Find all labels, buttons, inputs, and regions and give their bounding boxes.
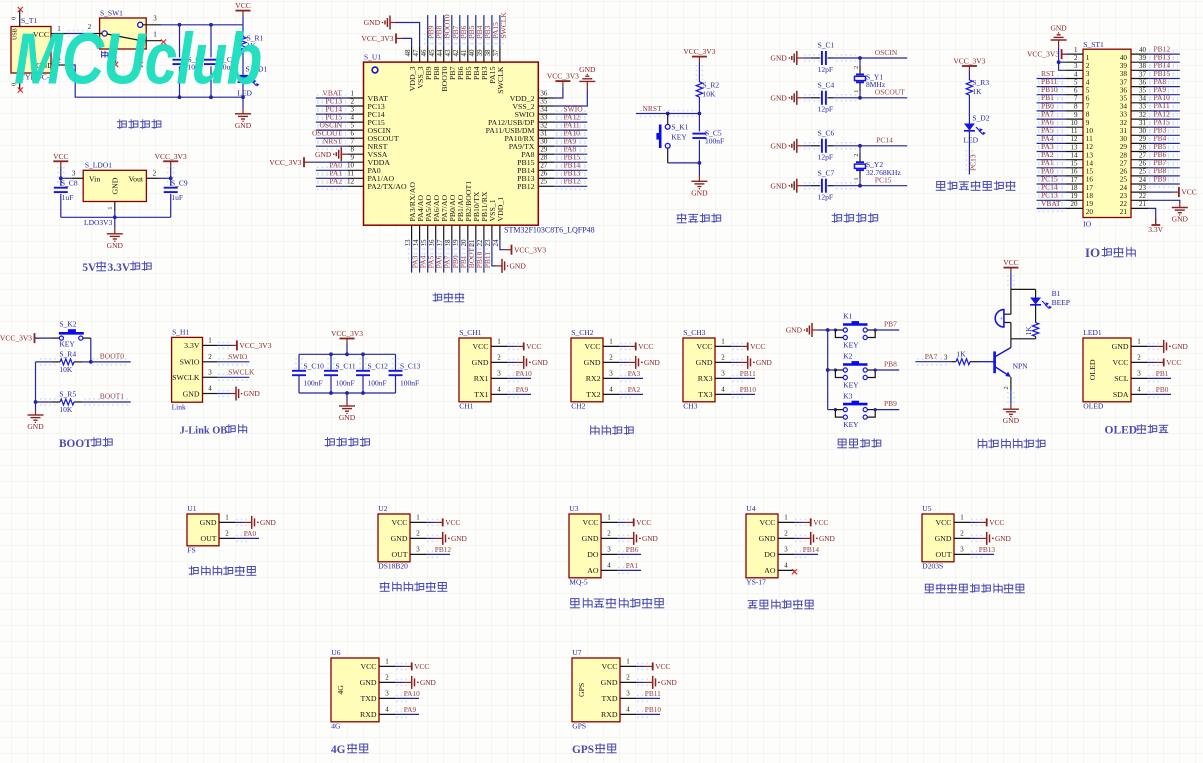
svg-text:27: 27 <box>540 162 548 170</box>
LED1 pin 2 to VCC <box>1112 353 1181 367</box>
title OLED显示屏 <box>1105 424 1169 436</box>
svg-text:2: 2 <box>351 97 355 105</box>
svg-text:8MHz: 8MHz <box>866 80 886 89</box>
svg-text:17: 17 <box>1071 176 1079 184</box>
U1 pin 38 PA15 (top) <box>484 15 500 83</box>
svg-text:39: 39 <box>1139 54 1147 62</box>
wire BOOT pulldown rail <box>34 362 38 404</box>
LED S_LD1 <box>237 65 267 98</box>
ST1 pin 18 node PC14 (left) <box>1037 183 1094 200</box>
svg-text:VCC_3V3: VCC_3V3 <box>155 152 187 161</box>
svg-text:CH1: CH1 <box>459 401 473 410</box>
svg-text:10K: 10K <box>59 365 73 374</box>
power flag VCC_3V3 of reset circuit <box>683 47 715 82</box>
svg-text:Vout: Vout <box>129 175 144 184</box>
title 4G模块 <box>331 743 369 756</box>
U1 pin 13 PA3/RX/AO (bottom) <box>404 182 420 273</box>
U1 pin 20 PB2/BOOT1 (bottom) <box>460 181 476 273</box>
svg-text:45: 45 <box>428 49 436 57</box>
svg-text:VCC: VCC <box>638 342 653 351</box>
ST1 pin 17 node PC15 (left) <box>1037 174 1094 191</box>
svg-text:STM32F103C8T6_LQFP48: STM32F103C8T6_LQFP48 <box>504 225 595 234</box>
svg-text:VCC_3V3: VCC_3V3 <box>239 341 271 350</box>
svg-text:1: 1 <box>351 89 355 97</box>
svg-text:PA1: PA1 <box>626 561 639 570</box>
svg-text:S_C10: S_C10 <box>304 361 325 370</box>
svg-text:GND: GND <box>1003 416 1020 425</box>
svg-text:1uF: 1uF <box>62 193 74 202</box>
svg-text:GND: GND <box>244 389 261 398</box>
svg-text:Link: Link <box>172 403 186 412</box>
connector S_ST1 body <box>1083 40 1131 229</box>
svg-text:35: 35 <box>540 97 548 105</box>
svg-text:1: 1 <box>784 513 788 521</box>
title 温度检测模块 <box>380 582 448 592</box>
ground GND at ST1 pin 22 <box>1172 203 1189 224</box>
ST1 pin 13 node PA3 (left) <box>1037 142 1094 159</box>
svg-text:GND: GND <box>819 534 835 543</box>
svg-text:4: 4 <box>721 385 725 393</box>
title 人体热释电感应模块 <box>925 584 1025 593</box>
svg-text:VCC: VCC <box>636 518 651 527</box>
ST1 pin 25 node PB8 (right) <box>1120 166 1180 184</box>
svg-text:2: 2 <box>153 170 157 178</box>
svg-text:PA2/TX/AO: PA2/TX/AO <box>368 182 408 191</box>
svg-text:RXD: RXD <box>601 710 618 719</box>
svg-text:PB8: PB8 <box>884 359 897 368</box>
U6 pin 4 node PA9 <box>360 705 419 719</box>
svg-text:VCC: VCC <box>935 518 951 527</box>
push button K3 node PB9 <box>828 391 900 429</box>
resistor S_R1 1K <box>240 25 264 75</box>
capacitor S_C1 12pF with ground, node OSCIN <box>771 41 908 74</box>
U1 pin 5 OSCIN (left) <box>316 121 391 135</box>
svg-text:34: 34 <box>540 106 548 114</box>
svg-text:18: 18 <box>1071 184 1079 192</box>
svg-text:KEY: KEY <box>671 133 687 142</box>
svg-text:2: 2 <box>960 529 964 537</box>
svg-text:100nF: 100nF <box>705 136 724 145</box>
svg-text:1: 1 <box>208 337 212 345</box>
svg-text:42: 42 <box>452 49 460 57</box>
svg-text:7: 7 <box>1074 95 1078 103</box>
svg-text:11: 11 <box>1071 127 1078 135</box>
U1 pin 2 node PA0 <box>200 529 259 543</box>
pin 0 top of S_T1 with no-ERC cross <box>11 7 23 27</box>
U7 pin 2 to GND <box>601 673 677 689</box>
title 火焰检测模块 <box>748 600 814 609</box>
svg-text:32: 32 <box>1139 111 1147 119</box>
capacitor S_C10 100nF <box>292 354 324 393</box>
svg-text:KEY: KEY <box>843 380 859 389</box>
title BOOT电路 <box>59 437 112 450</box>
U1 pin 27 PB14 (right) <box>517 161 587 176</box>
power flag VCC of alarm circuit <box>1003 258 1018 289</box>
svg-text:4: 4 <box>385 705 389 713</box>
svg-text:PB14: PB14 <box>803 545 820 554</box>
U1 pin 23 VSS_1 (bottom) <box>484 199 526 273</box>
svg-text:3: 3 <box>208 369 212 377</box>
svg-text:10: 10 <box>1071 119 1079 127</box>
svg-text:32.768KHz: 32.768KHz <box>866 168 901 177</box>
U7 pin 4 node PB10 <box>601 705 661 719</box>
svg-text:4G: 4G <box>331 744 346 756</box>
power flag VCC_3V3 of BOOT circuit <box>0 333 52 343</box>
svg-text:33: 33 <box>540 114 548 122</box>
svg-text:12pF: 12pF <box>818 65 833 74</box>
svg-text:18: 18 <box>444 239 452 247</box>
svg-text:S_C13: S_C13 <box>400 361 421 370</box>
svg-text:4: 4 <box>609 385 613 393</box>
ST1 pin 20 node VBAT (left) <box>1037 199 1094 216</box>
svg-text:37: 37 <box>1139 70 1147 78</box>
push button K2 node PB8 <box>828 352 900 390</box>
node NRST wire <box>636 104 701 117</box>
U1 pin 36 VDD_2 (right) <box>510 72 579 103</box>
U4 pin 4 to X <box>764 561 797 575</box>
svg-text:22: 22 <box>1139 192 1147 200</box>
svg-text:1: 1 <box>854 90 860 93</box>
power flag VCC top of power circuit <box>235 1 250 25</box>
ground GND of key circuit <box>786 323 830 337</box>
svg-text:S_R3: S_R3 <box>972 78 989 87</box>
U1 pin 31 PA10/RX (right) <box>504 129 587 144</box>
svg-text:SWIO: SWIO <box>228 352 248 361</box>
ST1 pin 22 to ground <box>1120 192 1180 208</box>
svg-text:DO: DO <box>587 550 599 559</box>
svg-text:GND: GND <box>1112 342 1129 351</box>
svg-text:13: 13 <box>1071 143 1079 151</box>
svg-text:GND: GND <box>584 358 601 367</box>
title 主芯片 <box>433 293 465 302</box>
svg-text:12: 12 <box>347 178 355 186</box>
svg-text:VCC: VCC <box>1112 358 1128 367</box>
svg-text:VCC_3V3: VCC_3V3 <box>269 158 301 167</box>
U1 pin 12 PA2/TX/AO (left) <box>316 177 407 191</box>
svg-text:AO: AO <box>764 566 776 575</box>
svg-text:4: 4 <box>784 561 788 569</box>
U1 pin 45 PB8 (top) <box>428 15 444 80</box>
svg-text:S_C9: S_C9 <box>171 179 188 188</box>
svg-text:1: 1 <box>626 657 630 665</box>
capacitor S_C9 1uF <box>164 167 188 217</box>
svg-text:IO: IO <box>1085 245 1100 260</box>
svg-text:LDO3V3: LDO3V3 <box>84 218 113 227</box>
pin 2 Vout of LDO1 <box>146 170 172 181</box>
svg-text:1: 1 <box>609 337 613 345</box>
svg-text:GND: GND <box>771 141 788 150</box>
ST1 pin 38 node PB14 (right) <box>1120 61 1180 79</box>
connector S_T1 TYPE-C-2P <box>11 16 57 82</box>
capacitor S_C7 12pF with ground, node PC15 <box>771 168 908 201</box>
svg-text:PB10: PB10 <box>740 385 757 394</box>
svg-text:S_H1: S_H1 <box>172 328 189 337</box>
svg-text:24: 24 <box>1139 176 1147 184</box>
wire key ground rail <box>826 330 830 410</box>
svg-text:15: 15 <box>1071 160 1079 168</box>
title 复位电路 <box>677 213 721 223</box>
S_CH3 pin 1 to VCC <box>696 337 765 351</box>
ST1 pin 4 node RST (left) <box>1037 69 1090 86</box>
svg-text:PB11: PB11 <box>740 369 756 378</box>
svg-text:31: 31 <box>540 130 548 138</box>
svg-text:PB12: PB12 <box>564 177 581 186</box>
svg-text:SDA: SDA <box>1113 390 1129 399</box>
svg-text:U7: U7 <box>572 648 581 657</box>
svg-text:3: 3 <box>944 353 948 361</box>
svg-text:GND: GND <box>532 358 548 367</box>
U1 pin 37 SWCLK (top) <box>492 12 508 94</box>
title 风速检测模块 <box>189 566 257 576</box>
svg-text:VCC: VCC <box>1181 188 1196 197</box>
pin 2 of SW1 <box>88 23 102 34</box>
capacitor S_C3 10uF <box>204 25 236 97</box>
svg-text:2: 2 <box>416 529 420 537</box>
ST1 pin 32 node PA12 (right) <box>1120 109 1180 127</box>
svg-text:10: 10 <box>347 162 355 170</box>
svg-text:20: 20 <box>1071 200 1079 208</box>
U1 pin 48 VDD_3 (top) <box>361 33 416 91</box>
svg-text:PB12: PB12 <box>435 545 452 554</box>
display LED1 OLED <box>1083 328 1131 410</box>
U5 pin 1 to VCC <box>935 513 1004 527</box>
svg-text:GND: GND <box>935 534 952 543</box>
ST1 pin 3 <box>1065 62 1090 78</box>
svg-text:TX3: TX3 <box>698 390 712 399</box>
wire reset bottom junction <box>668 161 702 165</box>
svg-text:GND: GND <box>451 534 467 543</box>
svg-text:GND: GND <box>771 54 788 63</box>
svg-text:GPS: GPS <box>572 721 586 730</box>
title 电源电路 <box>117 119 161 129</box>
svg-text:6: 6 <box>351 130 355 138</box>
svg-text:PB9: PB9 <box>884 399 897 408</box>
svg-text:2: 2 <box>1074 54 1078 62</box>
ST1 pin 21 to 3.3V power flag <box>1120 200 1156 225</box>
svg-text:4G: 4G <box>336 685 345 695</box>
ST1 pin 11 node PA5 (left) <box>1037 126 1093 143</box>
svg-text:GND: GND <box>27 422 44 431</box>
connector S_H1 J-Link <box>172 328 203 412</box>
svg-text:BOOT1: BOOT1 <box>100 392 124 401</box>
watermark MCUclub <box>14 19 261 99</box>
U1 pin 42 PB6 (top) <box>452 15 468 80</box>
U1 pin 29 PA8 (right) <box>521 145 587 160</box>
svg-text:PB12: PB12 <box>517 182 534 191</box>
U1 pin 18 PB0/AO (bottom) <box>444 194 460 272</box>
U1 pin 47 VSS_3 (top) <box>364 16 425 89</box>
pin 1 GND of LDO1 <box>107 202 115 218</box>
svg-text:K1: K1 <box>843 312 852 321</box>
svg-text:OUT: OUT <box>935 550 951 559</box>
svg-text:PA9: PA9 <box>404 705 417 714</box>
svg-text:15: 15 <box>420 239 428 247</box>
svg-text:RX1: RX1 <box>474 374 489 383</box>
svg-text:38: 38 <box>1139 62 1147 70</box>
U1 pin 1 to GND <box>200 513 276 529</box>
ST1 pin 14 node PA2 (left) <box>1037 150 1094 167</box>
svg-text:8: 8 <box>351 146 355 154</box>
svg-text:VCC_3V3: VCC_3V3 <box>514 245 546 254</box>
pin 1 VCC of S_T1 <box>51 25 67 34</box>
svg-text:VCC_3V3: VCC_3V3 <box>361 34 393 43</box>
svg-text:3: 3 <box>351 106 355 114</box>
capacitor S_C5 100nF <box>692 114 724 163</box>
svg-text:1: 1 <box>854 177 860 180</box>
svg-text:S_R2: S_R2 <box>703 80 720 89</box>
ST1 pin 23 with power flag VCC <box>1120 184 1197 200</box>
U1 pin 32 PA11/USB/DM (right) <box>486 120 588 134</box>
svg-text:5: 5 <box>351 122 355 130</box>
U2 pin 3 node PB12 <box>391 545 451 559</box>
svg-text:3: 3 <box>385 689 389 697</box>
svg-text:2: 2 <box>721 353 725 361</box>
U3 pin 3 node PB6 <box>587 545 641 559</box>
svg-text:NRST: NRST <box>643 104 663 113</box>
svg-text:D203S: D203S <box>922 561 943 570</box>
svg-text:VCC: VCC <box>235 1 250 10</box>
svg-text:VCC: VCC <box>989 518 1004 527</box>
svg-text:PA7: PA7 <box>925 352 938 361</box>
svg-text:40: 40 <box>468 49 476 57</box>
svg-text:4: 4 <box>351 114 355 122</box>
svg-text:1: 1 <box>1074 46 1078 54</box>
power flag 3.3V <box>1148 218 1163 234</box>
svg-text:GND: GND <box>420 678 436 687</box>
S_CH3 pin 2 to GND <box>696 353 772 369</box>
svg-text:TXD: TXD <box>601 694 617 703</box>
svg-text:22: 22 <box>476 239 484 247</box>
U1 pin 17 PA7/AO (bottom) <box>436 195 452 273</box>
svg-text:PB9: PB9 <box>1154 174 1167 183</box>
svg-text:PB6: PB6 <box>626 545 639 554</box>
ground GND of reset circuit <box>691 163 708 197</box>
svg-text:VCC: VCC <box>414 662 429 671</box>
U6 pin 2 to GND <box>360 673 436 689</box>
svg-text:GND: GND <box>995 534 1011 543</box>
svg-text:8: 8 <box>1074 103 1078 111</box>
svg-text:30: 30 <box>1139 127 1147 135</box>
ground GND of alarm circuit <box>1003 404 1020 425</box>
svg-text:23: 23 <box>1139 184 1147 192</box>
svg-text:PA2: PA2 <box>329 177 342 186</box>
svg-text:3: 3 <box>1074 62 1078 70</box>
svg-text:3: 3 <box>721 369 725 377</box>
sensor U5 D203S PIR <box>922 504 954 570</box>
power flag VCC_3V3 of indicator <box>953 57 985 81</box>
ST1 pin 1 with power flag VCC_3V3 <box>1027 46 1090 62</box>
U1 pin 3 PC14 (left) <box>316 105 385 119</box>
title 晶振电路 <box>832 213 878 223</box>
S_CH1 pin 1 to VCC <box>472 337 541 351</box>
ST1 pin 2 <box>1065 54 1090 70</box>
svg-text:DS18B20: DS18B20 <box>378 561 408 570</box>
SW1 unused bottom pins with crosses <box>113 43 143 67</box>
svg-text:GND: GND <box>696 358 713 367</box>
capacitor S_C8 1uF <box>54 167 78 217</box>
U1 pin 15 PA5/AO (bottom) <box>420 195 436 273</box>
svg-text:3: 3 <box>607 545 611 553</box>
svg-text:GND: GND <box>642 534 658 543</box>
svg-text:PA0: PA0 <box>244 529 257 538</box>
S_CH3 pin 3 node PB11 <box>698 369 756 383</box>
svg-text:GND: GND <box>759 534 776 543</box>
svg-text:VCC_3V3: VCC_3V3 <box>683 47 715 56</box>
svg-text:GND: GND <box>510 262 527 271</box>
resistor S_R5 10K <box>36 390 83 414</box>
svg-text:10K: 10K <box>703 90 717 99</box>
svg-text:GND: GND <box>771 181 788 190</box>
svg-text:PA10: PA10 <box>404 689 420 698</box>
svg-text:LED: LED <box>964 136 979 145</box>
svg-text:100nF: 100nF <box>336 379 355 388</box>
U1 pin 6 OSCOUT (left) <box>312 129 399 143</box>
U1 pin 9 VDDA (left) <box>269 154 390 168</box>
pin 1 of SW1 with no-ERC cross <box>143 31 166 45</box>
S_CH2 pin 4 node PA2 <box>586 385 643 399</box>
U1 pin 10 PA0 (left) <box>316 161 381 175</box>
svg-text:S_C7: S_C7 <box>818 168 835 177</box>
svg-text:1: 1 <box>497 337 501 345</box>
LED1 pin 1 to GND <box>1112 337 1188 353</box>
svg-text:VBAT: VBAT <box>1041 199 1061 208</box>
wire emitter to ground <box>1003 377 1014 404</box>
U1 pin 19 PB1/AO (bottom) <box>452 194 468 272</box>
svg-text:1: 1 <box>1137 337 1141 345</box>
svg-text:1: 1 <box>721 337 725 345</box>
svg-text:GND: GND <box>786 326 803 335</box>
svg-text:1: 1 <box>385 657 389 665</box>
svg-text:VCC: VCC <box>53 152 68 161</box>
resistor S_R2 10K <box>696 80 719 113</box>
svg-text:12pF: 12pF <box>818 193 833 202</box>
svg-text:1: 1 <box>416 513 420 521</box>
capacitor S_C12 100nF <box>356 354 388 393</box>
svg-text:3: 3 <box>784 545 788 553</box>
svg-text:14: 14 <box>412 239 420 247</box>
capacitor S_C11 100nF <box>324 354 356 393</box>
U4 pin 1 to VCC <box>759 513 828 527</box>
ST1 pin 39 node PB13 (right) <box>1120 53 1180 71</box>
svg-text:GND: GND <box>582 534 599 543</box>
S_CH1 pin 2 to GND <box>472 353 548 369</box>
svg-text:35: 35 <box>1139 87 1147 95</box>
svg-text:U4: U4 <box>746 504 755 513</box>
U1 pin 8 VSSA (left) <box>315 146 388 162</box>
svg-text:28: 28 <box>1139 143 1147 151</box>
svg-text:39: 39 <box>476 49 484 57</box>
sensor U2 DS18B20 <box>378 504 410 570</box>
svg-text:GND: GND <box>771 93 788 102</box>
svg-text:GND: GND <box>111 177 120 194</box>
svg-text:1: 1 <box>225 513 229 521</box>
svg-text:TX1: TX1 <box>474 390 488 399</box>
pin 3 of SW1 <box>143 15 162 25</box>
svg-text:PA3: PA3 <box>628 369 641 378</box>
svg-text:VCC: VCC <box>582 518 598 527</box>
svg-text:21: 21 <box>468 239 476 247</box>
svg-text:36: 36 <box>1139 78 1147 86</box>
ST1 pin 31 node PA15 (right) <box>1120 118 1180 136</box>
svg-text:U3: U3 <box>569 504 578 513</box>
switch S_SW1 <box>100 9 147 50</box>
svg-text:J-Link OB: J-Link OB <box>180 426 228 437</box>
svg-text:B1: B1 <box>1052 289 1061 298</box>
svg-text:GND: GND <box>756 358 772 367</box>
U3 pin 1 to VCC <box>582 513 651 527</box>
U7 pin 3 node PB11 <box>601 689 661 703</box>
svg-text:S_C11: S_C11 <box>336 361 356 370</box>
